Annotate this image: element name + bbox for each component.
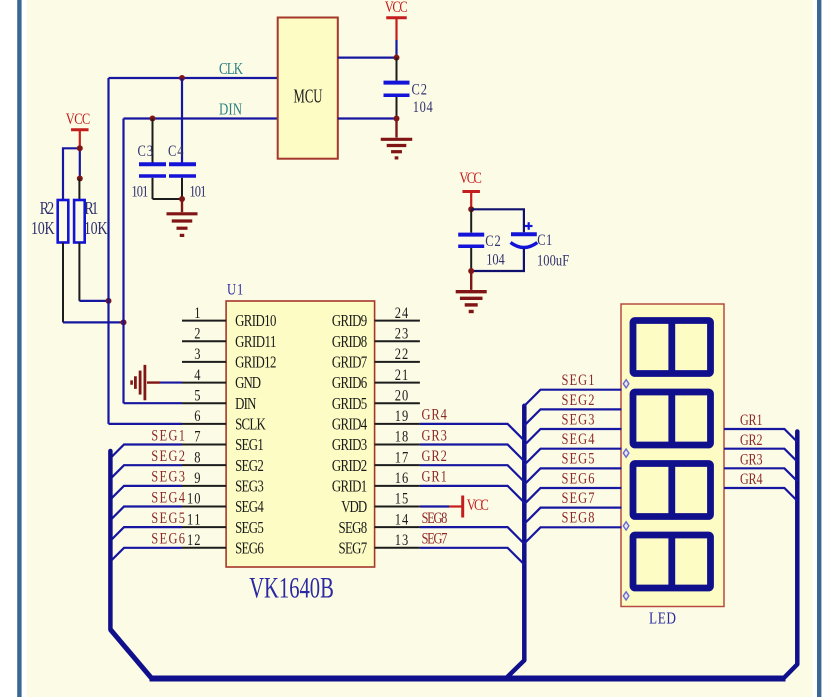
svg-text:10: 10: [187, 490, 201, 508]
svg-text:104: 104: [486, 251, 505, 269]
wire GR3 LED to bus: [724, 468, 797, 481]
wire GR4 LED to bus: [724, 488, 797, 501]
bus bottom horizontal: [150, 676, 786, 682]
U1 pin 20 (GRID5): [375, 402, 420, 404]
svg-text:6: 6: [194, 408, 200, 426]
wire DIN horizontal: [124, 117, 278, 119]
ground symbol (C3/C4): [181, 199, 183, 212]
svg-text:GRID8: GRID8: [332, 333, 367, 351]
bus bottom-left diagonal: [110, 630, 151, 679]
wire filter top: [471, 209, 524, 232]
svg-text:SEG7: SEG7: [562, 490, 595, 508]
svg-text:4: 4: [194, 366, 200, 384]
svg-text:C2: C2: [485, 233, 501, 251]
U1 pin 3 (GRID12): [182, 361, 226, 363]
U1 pin 7 (SEG1): [182, 444, 226, 446]
svg-text:101: 101: [189, 183, 206, 201]
svg-text:GRID9: GRID9: [332, 313, 367, 331]
svg-text:VCC: VCC: [66, 111, 91, 129]
svg-text:GRID10: GRID10: [235, 313, 276, 331]
wire VCC to R2: [63, 148, 80, 200]
bus left vertical: [108, 451, 113, 630]
svg-text:C2: C2: [412, 81, 428, 99]
svg-text:R2: R2: [40, 199, 55, 218]
wire GR1 from U1 to bus: [420, 486, 524, 503]
svg-text:21: 21: [395, 366, 409, 384]
svg-text:GRID2: GRID2: [332, 457, 367, 475]
wire SEG8 bus to LED: [524, 527, 621, 543]
U1 pin 17 (GRID2): [375, 464, 420, 466]
svg-text:C1: C1: [537, 232, 552, 250]
U1 pin 6 (SCLK): [182, 423, 226, 425]
junction filter ground node: [468, 268, 474, 274]
svg-text:SEG8: SEG8: [562, 509, 595, 527]
svg-text:22: 22: [395, 346, 409, 364]
ground symbol (U1 GND pin): [132, 365, 160, 400]
wire GR1 LED to bus: [724, 429, 797, 442]
wire GR3 from U1 to bus: [420, 445, 524, 462]
ground symbol (filter): [470, 271, 472, 290]
svg-text:SEG7: SEG7: [339, 540, 368, 558]
wire MCU to ground node: [338, 117, 397, 119]
svg-text:SEG2: SEG2: [151, 448, 185, 466]
svg-text:9: 9: [194, 470, 200, 488]
svg-text:10K: 10K: [84, 219, 108, 238]
U1 pin 15 (VDD): [375, 505, 420, 507]
svg-text:10K: 10K: [31, 219, 55, 238]
svg-text:CLK: CLK: [219, 61, 243, 79]
wire VDD pin15: [420, 505, 449, 507]
svg-text:SEG3: SEG3: [151, 468, 185, 486]
wire CLK horizontal: [109, 77, 278, 79]
U1 pin 18 (GRID3): [375, 444, 420, 446]
wire SEG4 bus to LED: [524, 449, 621, 465]
junction VCC node: [77, 145, 83, 151]
U1 pin 13 (SEG7): [375, 547, 420, 549]
ground symbol (MCU): [395, 119, 397, 138]
U1 pin 22 (GRID7): [375, 361, 420, 363]
resistor R2: [58, 200, 69, 243]
junction C2 ground node: [394, 116, 400, 122]
capacitor C2 (MCU): [396, 58, 398, 81]
svg-text:GRID4: GRID4: [332, 416, 368, 434]
svg-text:DIN: DIN: [219, 101, 242, 119]
svg-text:SEG5: SEG5: [151, 510, 185, 528]
svg-text:GR1: GR1: [740, 413, 763, 430]
wire SEG1 to left bus: [110, 445, 182, 459]
svg-text:18: 18: [395, 428, 409, 446]
svg-text:2: 2: [194, 325, 200, 343]
svg-text:19: 19: [395, 408, 409, 426]
wire SEG3 bus to LED: [524, 429, 621, 445]
capacitor C4: [181, 78, 183, 163]
svg-text:SEG2: SEG2: [562, 391, 595, 409]
svg-text:GR3: GR3: [740, 452, 763, 469]
LED digit 1: [633, 321, 711, 374]
wire SEG4 to left bus: [110, 506, 182, 520]
wire CLK vertical to SCLK pin: [107, 78, 109, 424]
svg-text:17: 17: [395, 449, 409, 467]
wire VCC to R1: [79, 148, 81, 178]
svg-text:SEG1: SEG1: [151, 427, 185, 445]
svg-text:13: 13: [395, 532, 409, 550]
svg-text:16: 16: [395, 470, 409, 488]
svg-text:15: 15: [395, 490, 409, 508]
LED pin diamond 1: [623, 380, 629, 388]
svg-text:SEG7: SEG7: [422, 530, 448, 548]
LED digit 3: [633, 464, 711, 517]
svg-text:100uF: 100uF: [537, 252, 569, 270]
junction R2-DIN: [121, 319, 127, 325]
svg-text:SEG6: SEG6: [151, 530, 185, 548]
wire GR2 LED to bus: [724, 449, 797, 462]
wire SEG1 bus to LED: [524, 390, 621, 406]
wire GND pin4: [160, 381, 182, 383]
svg-text:SEG1: SEG1: [562, 372, 595, 390]
svg-text:SEG2: SEG2: [235, 457, 264, 475]
svg-text:SEG5: SEG5: [562, 450, 595, 468]
svg-text:101: 101: [131, 183, 148, 201]
svg-text:14: 14: [395, 511, 409, 529]
U1 pin 19 (GRID4): [375, 423, 420, 425]
svg-text:SEG1: SEG1: [235, 437, 264, 455]
LED pin diamond 4: [623, 592, 629, 600]
U1 pin 1 (GRID10): [182, 320, 226, 322]
U1 pin 23 (GRID8): [375, 340, 420, 342]
svg-text:11: 11: [187, 511, 201, 529]
U1 pin 4 (GND): [182, 382, 226, 384]
power flag VCC (VDD): [449, 495, 463, 517]
svg-text:GR4: GR4: [422, 406, 447, 424]
junction R1 top: [77, 176, 83, 182]
junction R1-SCLK: [106, 298, 112, 304]
bus right vertical (GR): [795, 432, 800, 665]
LED digit 4: [633, 535, 711, 588]
C1 plus sign: [525, 222, 533, 230]
junction C3C4 ground node: [179, 196, 185, 202]
frame border left: [17, 0, 21, 697]
svg-text:SCLK: SCLK: [235, 416, 266, 434]
junction CLK-C4: [179, 75, 185, 81]
wire C3-C4 bottom: [153, 198, 183, 200]
wire SEG5 to left bus: [110, 527, 182, 541]
U1 pin 9 (SEG3): [182, 485, 226, 487]
frame border right: [817, 0, 821, 697]
svg-text:GRID3: GRID3: [332, 437, 367, 455]
U1 pin 8 (SEG2): [182, 464, 226, 466]
svg-text:GRID7: GRID7: [332, 354, 367, 372]
wire SEG8 from U1 to bus: [420, 527, 524, 544]
svg-text:VDD: VDD: [341, 499, 367, 517]
svg-text:GR3: GR3: [422, 427, 447, 445]
U1 pin 5 (DIN): [182, 402, 226, 404]
svg-text:MCU: MCU: [294, 85, 323, 108]
IC U1 box: [226, 301, 375, 567]
svg-text:1: 1: [194, 304, 200, 322]
svg-text:GR2: GR2: [740, 433, 763, 450]
svg-text:GRID1: GRID1: [332, 478, 367, 496]
svg-text:SEG4: SEG4: [562, 431, 595, 449]
wire GR2 from U1 to bus: [420, 465, 524, 482]
svg-text:VCC: VCC: [385, 0, 408, 16]
LED pin diamond 3: [623, 522, 629, 530]
svg-text:GRID6: GRID6: [332, 375, 367, 393]
svg-text:104: 104: [413, 98, 433, 116]
svg-text:20: 20: [395, 387, 409, 405]
U1 pin 2 (GRID11): [182, 340, 226, 342]
svg-text:C4: C4: [168, 142, 184, 160]
junction VCC-C2: [394, 55, 400, 61]
wire SEG5 bus to LED: [524, 468, 621, 484]
LED pin diamond 2: [623, 449, 629, 457]
svg-text:VK1640B: VK1640B: [249, 572, 334, 604]
capacitor C3: [152, 119, 154, 163]
svg-text:GR4: GR4: [740, 472, 763, 489]
U1 pin 24 (GRID9): [375, 320, 420, 322]
wire DIN vertical to DIN pin: [122, 119, 124, 404]
U1 pin 12 (SEG6): [182, 547, 226, 549]
svg-text:GRID12: GRID12: [235, 354, 276, 372]
svg-text:GND: GND: [235, 375, 261, 393]
resistor R1 lead top: [78, 179, 80, 201]
svg-text:DIN: DIN: [235, 395, 257, 413]
wire MCU to VCC node: [338, 56, 397, 58]
svg-text:SEG5: SEG5: [235, 519, 264, 537]
wire SEG6 bus to LED: [524, 488, 621, 504]
wire SEG6 to left bus: [110, 548, 182, 562]
svg-text:GR2: GR2: [422, 448, 447, 466]
svg-text:SEG4: SEG4: [235, 499, 264, 517]
wire SEG2 bus to LED: [524, 409, 621, 425]
svg-text:GRID5: GRID5: [332, 395, 367, 413]
svg-text:SEG8: SEG8: [422, 510, 448, 528]
wire GR4 from U1 to bus: [420, 424, 524, 441]
bus bottom-right diagonal: [784, 664, 797, 678]
svg-text:SEG3: SEG3: [562, 411, 595, 429]
capacitor C1 electrolytic: [511, 232, 537, 236]
U1 pin 16 (GRID1): [375, 485, 420, 487]
junction DIN-C3: [150, 116, 156, 122]
U1 pin 14 (SEG8): [375, 526, 420, 528]
LED display box: [621, 304, 724, 607]
wire SEG7 from U1 to bus: [420, 548, 524, 565]
bus vertical SEG fan: [522, 406, 527, 661]
svg-text:GRID11: GRID11: [235, 333, 276, 351]
U1 pin 10 (SEG4): [182, 505, 226, 507]
svg-text:R1: R1: [84, 199, 98, 218]
svg-text:SEG6: SEG6: [562, 470, 595, 488]
svg-text:8: 8: [194, 449, 200, 467]
capacitor C2 (filter): [470, 211, 472, 233]
svg-text:12: 12: [187, 532, 201, 550]
wire SEG3 to left bus: [110, 486, 182, 500]
resistor R1: [74, 200, 85, 243]
svg-text:5: 5: [194, 387, 200, 405]
U1 pin 21 (GRID6): [375, 382, 420, 384]
svg-text:SEG8: SEG8: [339, 519, 368, 537]
wire R1 bottom to SCLK net: [78, 243, 80, 301]
wire R2 bottom to DIN net: [62, 243, 64, 323]
LED digit 2: [633, 392, 711, 445]
svg-text:7: 7: [194, 428, 200, 446]
U1 pin 11 (SEG5): [182, 526, 226, 528]
svg-text:GR1: GR1: [422, 468, 447, 486]
MCU U? box: [278, 18, 338, 159]
svg-text:VCC: VCC: [467, 497, 489, 515]
wire SEG2 to left bus: [110, 465, 182, 479]
svg-text:24: 24: [395, 304, 409, 322]
svg-text:LED: LED: [649, 609, 676, 628]
wire filter bottom: [471, 249, 524, 272]
bus branch diagonal to SEG fan: [507, 660, 525, 678]
svg-text:SEG6: SEG6: [235, 540, 264, 558]
svg-text:U1: U1: [227, 281, 243, 299]
junction VCC filter top: [468, 206, 474, 212]
svg-text:VCC: VCC: [459, 170, 482, 188]
svg-text:23: 23: [395, 325, 409, 343]
wire SEG7 bus to LED: [524, 508, 621, 524]
svg-text:SEG3: SEG3: [235, 478, 264, 496]
svg-text:SEG4: SEG4: [151, 489, 185, 507]
svg-text:C3: C3: [138, 142, 154, 160]
svg-text:3: 3: [194, 346, 200, 364]
